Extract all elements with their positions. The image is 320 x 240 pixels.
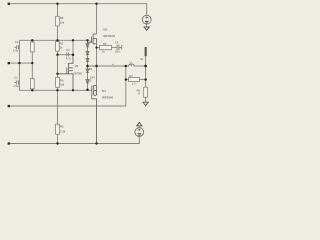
svg-text:C2: C2: [14, 76, 18, 80]
junction V- rail / R2 column: [56, 142, 58, 144]
junction R7 branch left: [125, 78, 127, 80]
diode D2: [86, 52, 89, 55]
wire diode chain column: [87, 40, 89, 90]
resistor R1: [30, 42, 34, 52]
diode labels: [88, 41, 95, 83]
resistor R8: [56, 16, 65, 26]
svg-text:R8: R8: [60, 16, 64, 20]
svg-text:10n: 10n: [115, 49, 120, 53]
resistor R6 load: [137, 87, 148, 97]
wire V2 mid: [31, 52, 33, 79]
capacitor C2: [14, 80, 19, 84]
wire V1 input column: [19, 40, 91, 90]
svg-text:M3: M3: [75, 64, 79, 68]
wire V3 top: [57, 4, 59, 17]
capacitor C4: [117, 45, 122, 51]
wire H2 gate row: [19, 39, 87, 41]
capacitor C3: [67, 52, 69, 56]
terminal dot V+ rail left end: [8, 3, 10, 5]
svg-text:IRF9540: IRF9540: [102, 95, 113, 99]
junction lower row / R4 bottom: [31, 89, 33, 91]
diode D4: [86, 69, 89, 72]
resistor R3: [56, 42, 64, 52]
terminal dot V- rail left end: [8, 142, 10, 144]
resistor R7: [129, 74, 140, 85]
junction C3 left / R3 column: [56, 54, 58, 56]
wire feedback path: [9, 66, 126, 106]
wire V3 R3-R9: [57, 51, 59, 77]
ground below load: [142, 102, 148, 106]
svg-text:D1: D1: [89, 41, 93, 44]
svg-text:M1: M1: [102, 89, 106, 93]
transistor M2: [88, 34, 97, 44]
resistor R9: [56, 77, 65, 87]
svg-text:L1: L1: [130, 60, 133, 64]
svg-text:1.0: 1.0: [132, 82, 136, 85]
svg-text:1k: 1k: [60, 45, 63, 49]
svg-text:R5: R5: [103, 42, 107, 46]
svg-text:10k: 10k: [60, 82, 65, 86]
wire R7 branch left: [126, 79, 129, 81]
junction lower row / R9 bottom: [56, 89, 58, 91]
junction gate row / R3 column: [56, 39, 58, 41]
wire L1 row right: [136, 65, 146, 67]
junction R7 branch right: [144, 78, 146, 80]
svg-text:5u: 5u: [140, 58, 143, 61]
junction C3 right / M3 drain: [72, 53, 75, 56]
transistor M1: [92, 85, 97, 143]
svg-text:C3: C3: [66, 48, 70, 52]
junction node A row / R1-R4 column: [31, 62, 33, 64]
wire bottom rail: [9, 137, 140, 144]
svg-text:R3: R3: [60, 42, 64, 46]
svg-text:C1: C1: [15, 40, 19, 44]
junction gate row / M3 drain column: [72, 39, 74, 41]
wire V2 low: [31, 89, 33, 91]
junction V- rail / M1 source column: [95, 142, 97, 144]
wire V5 top: [96, 4, 98, 34]
wire output row: [88, 65, 126, 67]
wire R7 branch right: [140, 79, 146, 81]
svg-text:C4: C4: [115, 40, 119, 44]
gate mark M2: [88, 43, 90, 44]
resistor R2: [56, 124, 66, 134]
svg-text:R7: R7: [129, 74, 133, 78]
junction output row / feedback column: [125, 65, 127, 67]
svg-text:IRF540N: IRF540N: [104, 34, 116, 38]
wire V4 upper: [72, 40, 74, 54]
svg-text:M2: M2: [104, 28, 108, 32]
diode D1: [86, 44, 89, 47]
wire right column: [145, 56, 147, 87]
wire y63 row: [9, 62, 33, 64]
svg-text:8: 8: [138, 92, 140, 96]
wire C3 row: [58, 54, 74, 56]
probe: [145, 47, 147, 56]
svg-text:2N7000: 2N7000: [74, 72, 83, 75]
wire V3 R8-R3: [57, 26, 59, 42]
svg-text:D4: D4: [89, 68, 93, 71]
resistor R5: [100, 42, 112, 54]
junction output row / probe column: [144, 65, 147, 68]
svg-text:4.7u: 4.7u: [66, 57, 72, 61]
svg-text:1.5u: 1.5u: [13, 48, 19, 52]
resistor R4: [30, 79, 34, 89]
diode D5: [86, 80, 89, 83]
source V2 bottom right: [135, 127, 144, 137]
wire V2 upper: [31, 40, 33, 42]
wire load to ground: [145, 97, 147, 102]
diode D3: [86, 58, 89, 61]
junction diode chain bottom / M1 gate: [86, 89, 89, 92]
capacitor C1: [14, 45, 19, 49]
junction node A row / C1 column: [18, 62, 20, 64]
junction R5 lead / M2 source column: [95, 47, 97, 49]
svg-text:D5: D5: [88, 79, 92, 82]
terminal dot feedback row left end: [8, 105, 10, 107]
wire V3 R9-R2: [57, 87, 59, 124]
svg-text:R9: R9: [60, 78, 64, 82]
junction gate row / R1 column: [31, 39, 33, 41]
junction V+ rail / M2 drain column: [95, 3, 97, 5]
svg-text:R2: R2: [60, 125, 64, 129]
junction lower row / M3 source: [72, 89, 74, 91]
svg-text:3.3k: 3.3k: [60, 130, 66, 134]
wire V5 mid: [96, 44, 98, 86]
junction output row / M1 drain column: [95, 65, 98, 68]
wire R5-C4 lead: [112, 47, 117, 49]
wire R5 left lead: [97, 47, 100, 49]
inductor L1: [126, 64, 136, 66]
net tick: [112, 63, 114, 66]
source V1 top right: [142, 15, 151, 26]
inverted ground above source V2: [136, 123, 142, 126]
svg-text:10k: 10k: [60, 21, 65, 25]
svg-text:1k: 1k: [102, 50, 105, 54]
ground below source V1: [144, 27, 150, 30]
junction output row / diode chain: [86, 65, 89, 68]
junction M3 gate wire / R9 column: [56, 73, 58, 75]
junction V+ rail / R8 column: [56, 3, 58, 5]
junction gate row / diode chain top: [86, 39, 88, 41]
svg-text:1.5u: 1.5u: [13, 84, 19, 88]
wire V3 R2-rail: [57, 134, 59, 143]
wire top rail: [9, 4, 147, 16]
transistor M3: [58, 55, 74, 91]
terminal dot node A row left end: [8, 62, 10, 64]
